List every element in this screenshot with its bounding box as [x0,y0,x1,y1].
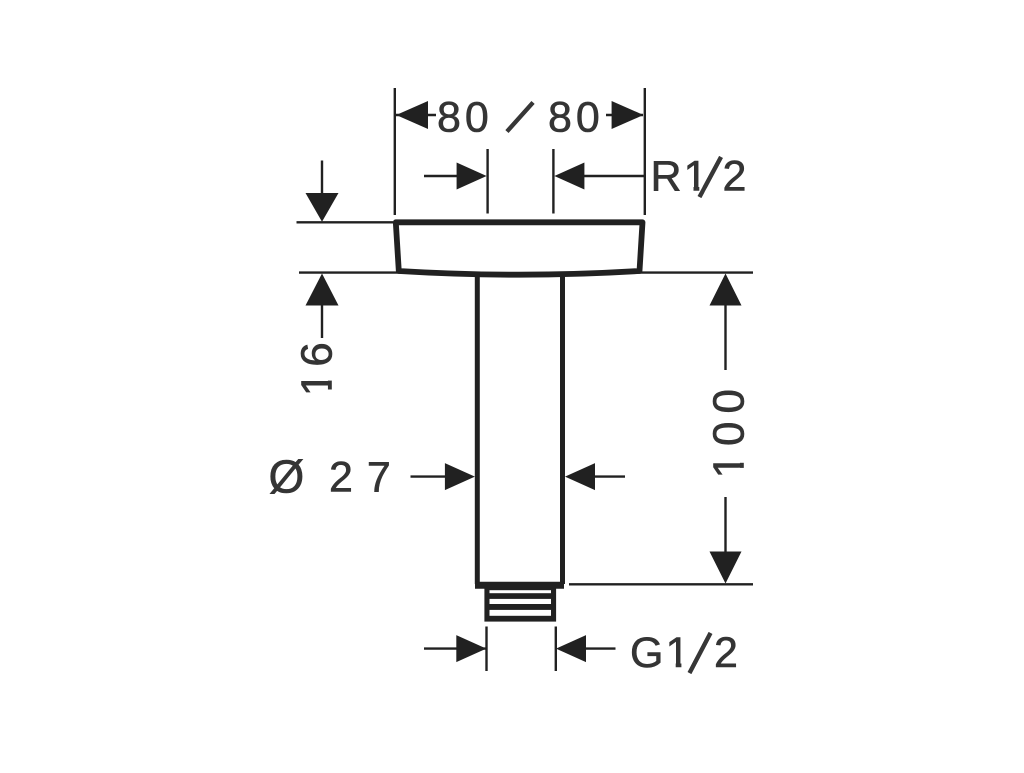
arrowhead 16 pointing up [306,274,339,306]
svg-text:2: 2 [714,629,738,677]
ceiling bottom line [299,271,753,273]
arrowhead 100 pointing down [710,552,742,584]
arrowhead 80/80 left [396,101,428,129]
cover serif of 1 in R1/2 [684,187,693,193]
svg-text:80: 80 [548,94,604,142]
svg-text:2: 2 [723,153,747,201]
label slash of G1/2 [690,633,711,673]
dim diameter-27 left tail [411,475,449,477]
arrowhead G1/2 pointing left [556,635,586,662]
arrowhead diameter-27 pointing left [565,463,595,490]
label slash of G1/2 (top) [690,633,711,673]
dim 80/80 left arrow tail [396,114,436,116]
label slash between 80 and 80 [507,103,533,132]
arrowhead 80/80 right [612,101,644,129]
G1/2 right arrow tail [586,647,616,649]
cover serif of 1 in 100 [738,455,744,463]
dim R1/2 left tail [424,175,458,177]
extension line inner-right (R1/2 bore) [552,149,554,214]
dim 100 upper tail [724,305,726,370]
arrowhead G1/2 pointing right [456,635,486,662]
pipe left wall [475,273,480,585]
label slash of R1/2 [700,157,722,197]
dim 16 upper tail [321,161,323,196]
extension line left (flange left edge) [394,88,396,215]
cover serif of 1 in G1/2 [667,663,676,669]
pipe bottom band [475,582,564,589]
svg-text:16: 16 [292,337,341,396]
svg-text:80: 80 [437,94,493,142]
svg-text:Ø: Ø [269,450,305,502]
extension line inner-left (R1/2 bore) [486,149,488,214]
pipe right wall [560,273,565,585]
arrowhead R1/2 pointing right [457,163,487,190]
G1/2 left tick [485,627,487,672]
extension line right (flange right edge) [644,88,646,215]
dim 100 lower tail [724,497,726,552]
G1/2 right tick [555,627,557,672]
arrowhead 100 pointing up [710,274,742,306]
arrowhead 16 pointing down [306,193,339,222]
dim 16 lower tail [321,303,323,338]
flange (ceiling escutcheon) [396,222,643,274]
dim R1/2 right tail [584,175,645,177]
svg-text:G1: G1 [630,629,691,677]
arrowhead diameter-27 pointing right [445,463,475,490]
cover serif of 1 in 16 [327,373,333,381]
label slash between 80 and 80 (top) [507,103,533,132]
ceiling top line [297,221,394,223]
svg-text:27: 27 [329,454,405,502]
G1/2 left arrow tail [424,647,486,649]
label slash of R1/2 (top) [700,157,722,197]
dim diameter-27 right tail [595,475,625,477]
dim 80/80 right arrow tail [606,114,643,116]
thread block [484,586,556,622]
svg-text:100: 100 [704,381,753,478]
bottom-right extension line [569,583,753,585]
arrowhead R1/2 pointing left [554,163,584,190]
